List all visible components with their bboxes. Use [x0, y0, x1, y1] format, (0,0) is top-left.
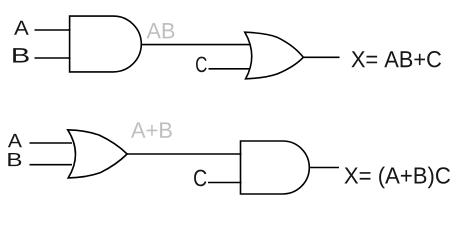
wire B to AND gate (row 1) [35, 57, 71, 59]
net A+B label (gray) [131, 122, 172, 137]
wire OR output (row 1) [303, 56, 339, 58]
wire AND output AB to OR gate (row 1) [141, 44, 250, 46]
node A (row 1) label [14, 21, 29, 35]
node C (row 2) label [194, 170, 206, 187]
wire A to AND gate (row 1) [35, 29, 71, 31]
wire OR output A+B to AND gate (row 2) [127, 153, 241, 155]
node A (row 2) label [8, 134, 22, 147]
OR gate U2 (row 1) [245, 32, 303, 79]
wire C to AND gate (row 2) [208, 182, 242, 184]
node B (row 2) label [8, 153, 21, 166]
wire B to OR gate (row 2) [30, 164, 73, 166]
output label X= AB+C [351, 51, 441, 67]
wire AND output (row 2) [309, 167, 339, 169]
node C (row 1) label [196, 57, 207, 73]
wire A to OR gate (row 2) [30, 142, 73, 144]
wire C to OR gate (row 1) [209, 68, 251, 70]
net AB label (gray) [147, 23, 175, 38]
OR gate U3 (row 2) [68, 130, 127, 178]
AND gate U4 (row 2) [241, 141, 310, 194]
AND gate U1 (row 1) [70, 16, 142, 72]
output label X= (A+B)C [344, 167, 450, 189]
node B (row 1) label [13, 48, 29, 62]
